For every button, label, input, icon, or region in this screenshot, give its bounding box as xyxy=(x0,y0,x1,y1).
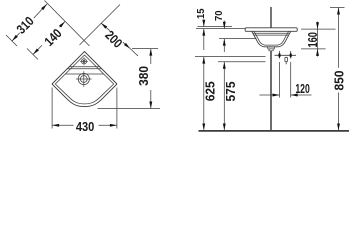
elevation drain height line xyxy=(218,61,266,63)
drain pipe xyxy=(270,51,272,130)
svg-text:310: 310 xyxy=(13,13,36,36)
extension tick at 140 lower end xyxy=(27,49,38,60)
svg-text:380: 380 xyxy=(136,66,151,86)
dimension 15 xyxy=(203,20,205,27)
basin outline plan view: front edge xyxy=(52,84,117,107)
drain fitting xyxy=(267,47,275,51)
dimension 430 extension lines xyxy=(51,88,53,129)
svg-text:200: 200 xyxy=(102,27,125,50)
bowl back edge line xyxy=(65,73,103,75)
svg-text:430: 430 xyxy=(76,119,95,134)
bowl profile side view inner xyxy=(254,31,289,45)
svg-text:850: 850 xyxy=(332,70,346,90)
bowl profile side view outer xyxy=(252,31,291,47)
dimension 120 line xyxy=(260,94,280,96)
elevation wall line A xyxy=(198,26,233,28)
dimension 380 bottom reference line xyxy=(98,108,161,110)
supply valve bar xyxy=(275,51,297,64)
svg-text:70: 70 xyxy=(214,10,225,21)
floor line xyxy=(199,130,350,132)
deck edge line 1 xyxy=(69,66,100,68)
dimension 140 line xyxy=(33,45,42,54)
faucet hole circle xyxy=(76,71,92,87)
dimension 575 xyxy=(223,62,225,131)
dimension 850 top tick xyxy=(330,7,345,9)
dimension 850 line xyxy=(338,8,340,68)
corner hole small circle xyxy=(80,57,88,65)
svg-text:120: 120 xyxy=(295,81,310,96)
basin outline plan view: back edges xyxy=(52,52,117,85)
dimension 310 line xyxy=(12,33,20,41)
dimension 625 xyxy=(203,57,205,131)
svg-text:160: 160 xyxy=(305,32,320,48)
dimension 430 line xyxy=(52,124,73,126)
dimension 70 xyxy=(223,21,225,29)
faucet riser line xyxy=(270,7,272,28)
svg-text:575: 575 xyxy=(224,81,238,101)
dimension 380 line xyxy=(150,49,152,64)
rim slab side view xyxy=(245,28,297,32)
extension line upper-right for 200 xyxy=(80,5,121,46)
svg-text:625: 625 xyxy=(203,81,217,101)
elevation line C under rim xyxy=(219,38,256,40)
svg-text:140: 140 xyxy=(41,26,64,49)
elevation supply height line xyxy=(195,56,266,58)
bowl far rim line xyxy=(253,32,289,34)
deck edge line 2 xyxy=(67,68,101,70)
basin inner rim plan view xyxy=(55,55,113,104)
extension line upper-left for 310/140 xyxy=(45,1,90,47)
dimension 380 top tick xyxy=(132,48,158,50)
svg-text:15: 15 xyxy=(196,8,207,19)
dimension 160 line xyxy=(317,29,319,49)
dimension 160 reference lines xyxy=(301,28,336,30)
120 extension lines xyxy=(279,62,281,98)
extension tick at 310 lower end xyxy=(6,35,17,46)
elevation wall line B xyxy=(196,28,246,30)
dimension 200 line xyxy=(101,23,110,31)
